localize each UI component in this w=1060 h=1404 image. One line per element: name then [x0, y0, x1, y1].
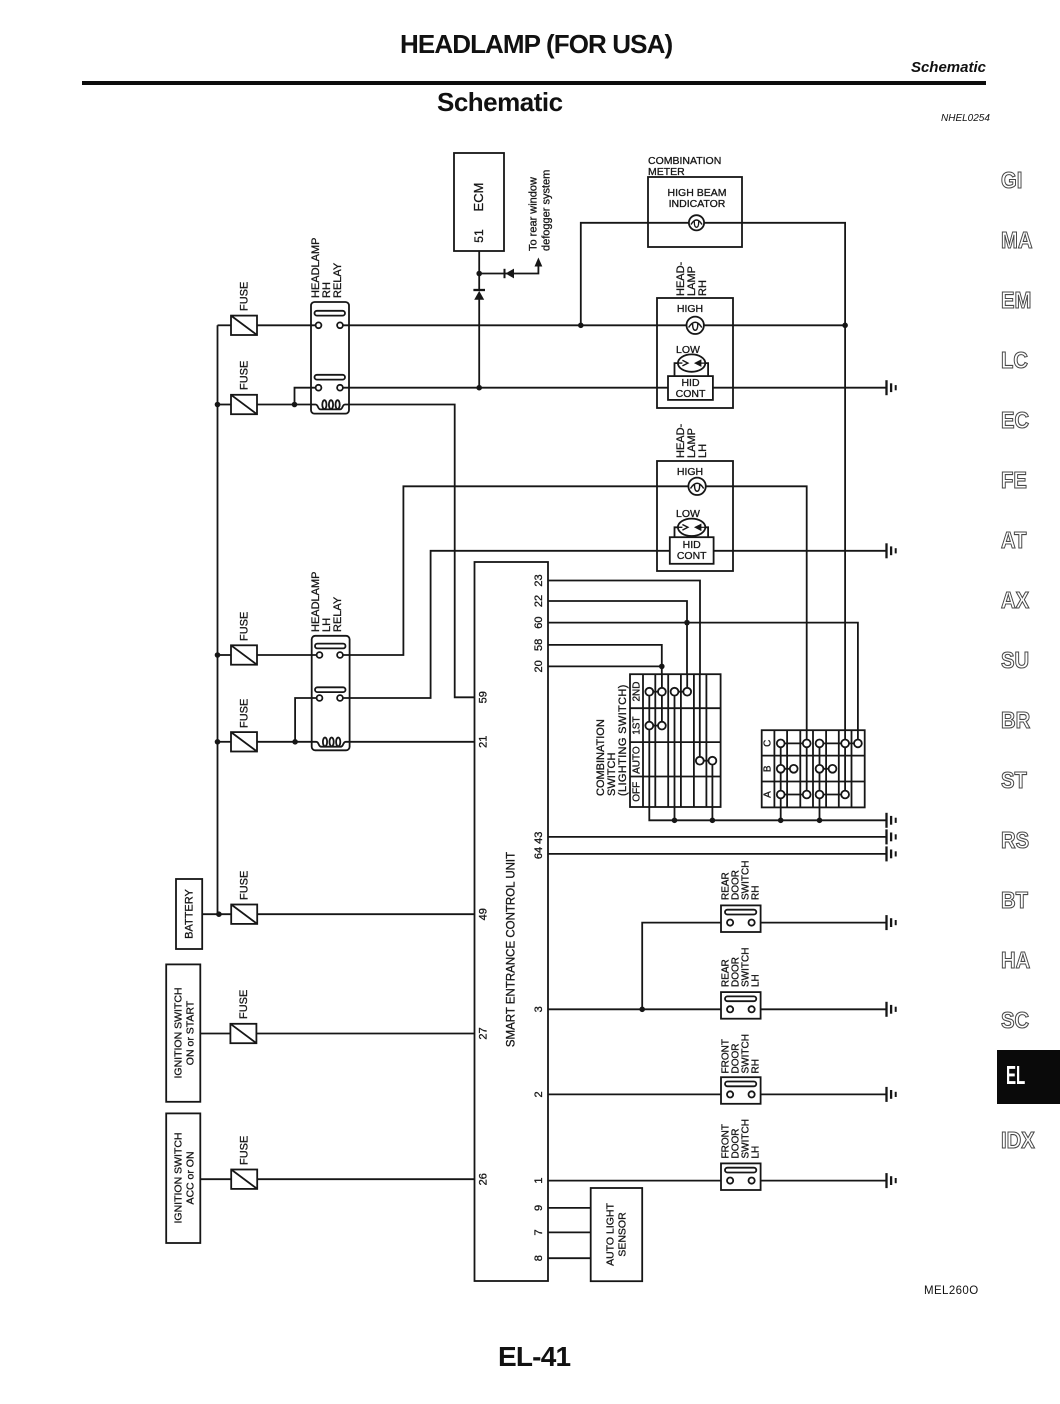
ground G6 [887, 915, 896, 930]
wire pin 22 to lighting switch [548, 601, 687, 674]
ground G9 [887, 1173, 896, 1188]
svg-text:ECM: ECM [471, 183, 486, 212]
wire pin 58 to lighting switch [548, 645, 662, 674]
fuse F1 [231, 316, 257, 335]
svg-text:B: B [763, 765, 774, 772]
dimmer switch A contacts [777, 791, 849, 799]
svg-text:ACC or ON: ACC or ON [185, 1151, 197, 1204]
dimmer/passing switch grid A B C [762, 730, 865, 807]
svg-text:FUSE: FUSE [239, 871, 251, 900]
svg-text:ON or START: ON or START [185, 1000, 197, 1065]
relay RH coil [311, 405, 349, 410]
wire diode D1 to low-beam net [478, 274, 480, 388]
wire front door switch LH to ground [761, 1180, 886, 1182]
wire pin 7 to auto light sensor [548, 1231, 591, 1233]
fuse F4 [231, 732, 257, 751]
svg-text:OFF: OFF [632, 782, 643, 802]
label rear door switch LH [721, 948, 762, 987]
svg-text:1ST: 1ST [632, 716, 643, 734]
section heading [437, 87, 563, 118]
wire 1 high beam RH [343, 324, 687, 326]
svg-text:RH: RH [751, 1059, 762, 1073]
wire indicator left leg [581, 223, 689, 325]
node bus abc1 [778, 818, 784, 824]
svg-text:A: A [763, 791, 774, 798]
figure code [941, 113, 990, 124]
wire ECM pin 51 down [478, 251, 480, 274]
svg-text:8: 8 [533, 1255, 545, 1261]
node diode to wire 2 [476, 385, 482, 391]
lamp low beam HID RH [675, 354, 709, 376]
front door switch LH [721, 1163, 761, 1190]
wire branch to rear door switch RH [642, 923, 721, 1010]
svg-text:IGNITION SWITCH: IGNITION SWITCH [173, 1133, 185, 1224]
wire rear door switch RH to ground [761, 922, 886, 924]
svg-text:AUTO LIGHT: AUTO LIGHT [605, 1203, 617, 1266]
ground G5 [887, 846, 896, 861]
dimmer switch column links [781, 730, 858, 807]
diode D2 [505, 269, 515, 279]
lighting switch column links [649, 674, 712, 807]
wire F5 to SECU pin 49 [257, 913, 474, 915]
svg-text:INDICATOR: INDICATOR [669, 198, 726, 210]
svg-text:SMART ENTRANCE CONTROL UNIT: SMART ENTRANCE CONTROL UNIT [506, 852, 518, 1047]
fuse F2 [231, 395, 257, 414]
wire pin 23 to lighting switch [548, 581, 700, 675]
node indicator left on wire1 [578, 323, 584, 329]
svg-text:26: 26 [478, 1173, 490, 1185]
lamp low beam HID LH [675, 519, 709, 538]
ground G7 [887, 1002, 896, 1017]
wire F1 to relay RH [257, 324, 316, 326]
relay LH coil [312, 742, 350, 747]
smart entrance control unit box [475, 562, 549, 1281]
relay LH headlamp relay box [312, 636, 350, 751]
rear door switch LH [721, 992, 761, 1019]
svg-text:LH: LH [697, 444, 709, 458]
svg-text:AUTO: AUTO [632, 746, 643, 774]
svg-text:59: 59 [478, 691, 490, 703]
wire rear door switch LH to ground [761, 1008, 886, 1010]
auto light sensor [591, 1188, 643, 1281]
fuse F6 [230, 1024, 256, 1043]
wire F6 to SECU pin 27 [256, 1033, 474, 1035]
SECU pin labels left [478, 691, 490, 1185]
wire indicator right leg down to dimmer switch [704, 223, 845, 730]
wire F7 to SECU pin 26 [257, 1178, 474, 1180]
rear door switch RH [721, 905, 761, 932]
left supply bus [217, 325, 219, 914]
node ECM branch junction [476, 271, 482, 277]
svg-text:9: 9 [533, 1205, 545, 1211]
node F4 branch [292, 739, 298, 745]
node bus c3 [672, 818, 678, 824]
side tabs [1001, 167, 1022, 194]
combination meter box [648, 155, 742, 247]
wire high RH lamp to dimmer [704, 324, 845, 326]
svg-text:2ND: 2ND [632, 681, 643, 701]
lighting switch 1ST contacts [645, 722, 665, 730]
lamp high beam RH [687, 317, 704, 334]
svg-text:CONT: CONT [677, 550, 707, 562]
svg-text:7: 7 [533, 1229, 545, 1235]
ignition switch ACC or ON [166, 1113, 200, 1243]
wire front door switch RH to ground [761, 1093, 886, 1095]
label combination switch [595, 684, 629, 796]
svg-text:FUSE: FUSE [239, 361, 251, 390]
svg-text:49: 49 [478, 908, 490, 920]
node pin58/20 [659, 664, 665, 670]
svg-text:RH: RH [751, 886, 762, 900]
wire branch to defogger [479, 261, 538, 274]
rule [82, 81, 986, 85]
arrow to rear window defogger system [535, 258, 543, 267]
wire 6 low beam LH [343, 551, 670, 698]
dimmer switch B contacts [777, 765, 837, 773]
svg-text:58: 58 [533, 639, 545, 651]
svg-text:22: 22 [533, 595, 545, 607]
wire headlamp RH feed from left bus [218, 324, 232, 326]
combination switch (lighting switch) grid [630, 674, 721, 807]
wire pin 3 to rear door switches [548, 1008, 721, 1010]
headlamp RH unit box [657, 298, 733, 408]
wire pin 2 to front door switch RH [548, 1093, 721, 1095]
svg-text:FUSE: FUSE [239, 282, 251, 311]
wire relay RH coil to SECU pin 59 [349, 405, 475, 698]
page number [498, 1341, 570, 1373]
node rear door branch [639, 1007, 645, 1013]
fuse F5 [231, 905, 257, 924]
headlamp LH unit box [657, 461, 733, 571]
lamp high beam LH [688, 478, 705, 495]
svg-text:1: 1 [533, 1178, 545, 1184]
svg-text:2: 2 [533, 1091, 545, 1097]
svg-text:LH: LH [751, 1146, 762, 1159]
page title [400, 29, 670, 60]
wire battery to F5 [202, 913, 231, 915]
wire pin 43 to ground [548, 836, 886, 838]
lighting switch AUTO contacts [696, 757, 716, 765]
svg-text:LH: LH [751, 974, 762, 987]
node bus F4 [215, 739, 221, 745]
wire ign1 to F6 [200, 1033, 230, 1035]
wire HID RH to ground [713, 387, 886, 389]
wire 2 low beam RH [343, 387, 668, 389]
svg-text:CONT: CONT [676, 388, 706, 400]
node bus battery [216, 911, 222, 917]
relay RH headlamp relay box [311, 302, 349, 414]
wire pin 60 to dimmer switch [548, 623, 858, 731]
wire F4 to relay LH coil and contact [257, 698, 317, 742]
label HEAD-LAMP RH [675, 261, 709, 296]
ground G3 [887, 813, 896, 828]
label HEAD-LAMP LH [675, 423, 709, 458]
dimmer switch C contacts [777, 740, 862, 748]
label rear door switch RH [721, 861, 762, 900]
wire pin 9 to auto light sensor [548, 1207, 591, 1209]
ground G2 [887, 543, 896, 558]
wire pin 8 to auto light sensor [548, 1257, 591, 1259]
lighting switch row labels [632, 681, 643, 801]
battery [176, 879, 202, 949]
label front door switch RH [721, 1034, 762, 1073]
svg-text:IGNITION SWITCH: IGNITION SWITCH [173, 988, 185, 1079]
node bus c6 [710, 818, 716, 824]
wire pin 20 [548, 665, 662, 667]
wire F2 feed [218, 404, 232, 406]
ground G4 [887, 829, 896, 844]
label: to rear window defogger system [528, 170, 553, 251]
drawing number [924, 1285, 979, 1297]
svg-text:FUSE: FUSE [238, 990, 250, 1019]
label HEADLAMP LH RELAY [310, 571, 344, 632]
svg-text:To rear window: To rear window [528, 177, 540, 251]
svg-text:60: 60 [533, 616, 545, 628]
running head right [911, 59, 986, 76]
lamp high beam indicator [689, 215, 704, 230]
ECM U1 [454, 153, 504, 251]
svg-text:BATTERY: BATTERY [184, 888, 196, 938]
node bus F3 [215, 652, 221, 658]
wire pin 1 to front door switch LH [548, 1180, 721, 1182]
lighting switch 2ND contacts [645, 688, 691, 696]
label front door switch LH [721, 1119, 762, 1158]
svg-text:FUSE: FUSE [239, 1136, 251, 1165]
svg-text:SENSOR: SENSOR [617, 1212, 629, 1257]
wire F3 feed [218, 654, 232, 656]
fuse F7 [231, 1170, 257, 1189]
node F2 branch [292, 402, 298, 408]
wire pin 64 to ground [548, 853, 886, 855]
svg-text:21: 21 [478, 736, 490, 748]
svg-text:defogger system: defogger system [541, 170, 553, 251]
node bus F2 [215, 402, 221, 408]
svg-text:64 43: 64 43 [533, 832, 545, 860]
svg-text:3: 3 [533, 1006, 545, 1012]
wire HID LH to ground [714, 550, 886, 552]
svg-text:C: C [763, 740, 774, 747]
front door switch RH [721, 1077, 761, 1104]
svg-text:20: 20 [533, 660, 545, 672]
svg-text:51: 51 [472, 229, 486, 243]
svg-text:FUSE: FUSE [239, 699, 251, 728]
SECU pin labels right [533, 574, 545, 1261]
svg-text:(LIGHTING SWITCH): (LIGHTING SWITCH) [617, 684, 629, 796]
svg-text:FUSE: FUSE [239, 612, 251, 641]
wire F2 to relay RH coil and contact [257, 388, 316, 405]
node indicator right on wire1 [842, 323, 848, 329]
svg-text:23: 23 [533, 574, 545, 586]
wire F4 feed [218, 741, 232, 743]
svg-text:27: 27 [478, 1027, 490, 1039]
svg-text:METER: METER [648, 166, 685, 178]
svg-text:RELAY: RELAY [332, 596, 344, 632]
ground G8 [887, 1087, 896, 1102]
wire relay LH coil to SECU pin 21 [350, 741, 475, 743]
wire high LH lamp to switch A/B/C [706, 486, 807, 730]
svg-text:RH: RH [697, 280, 709, 296]
fuse F3 [231, 645, 257, 664]
ignition switch ON or START [166, 964, 200, 1101]
node pin22/60 [684, 620, 690, 626]
ground G1 [887, 380, 896, 395]
HID control unit RH [668, 376, 713, 400]
label HEADLAMP RH RELAY [310, 237, 344, 298]
wire 5 high beam LH [343, 486, 689, 655]
wire F3 to relay LH [257, 654, 317, 656]
dimmer switch row labels [763, 740, 774, 798]
ground bus of switches [649, 807, 885, 820]
svg-text:HIGH: HIGH [677, 466, 703, 478]
diode D1 [473, 290, 485, 300]
svg-text:RELAY: RELAY [332, 262, 344, 298]
HID control unit LH [670, 537, 714, 564]
node bus abc4 [817, 818, 823, 824]
wire ign2 to F7 [200, 1178, 231, 1180]
svg-text:HIGH: HIGH [677, 303, 703, 315]
